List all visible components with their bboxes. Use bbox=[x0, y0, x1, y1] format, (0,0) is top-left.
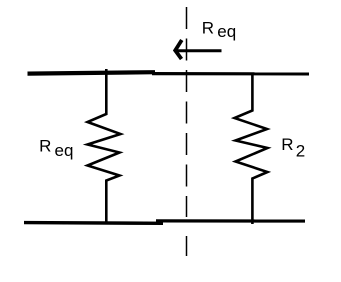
arrow shaft (R_eq direction arrow) bbox=[177, 49, 222, 52]
wire bottom right segment bbox=[156, 219, 305, 222]
svg-text:R: R bbox=[39, 137, 51, 156]
top wire right segment bbox=[152, 72, 309, 76]
svg-text:R: R bbox=[281, 135, 293, 154]
svg-text:R: R bbox=[202, 19, 214, 38]
top wire left segment bbox=[28, 72, 156, 73]
svg-text:2: 2 bbox=[296, 141, 305, 160]
svg-text:eq: eq bbox=[55, 141, 74, 160]
svg-text:eq: eq bbox=[217, 22, 236, 41]
resistor R2 (right) bbox=[235, 73, 268, 224]
dashed line bottom dash bbox=[186, 236, 188, 256]
wire bottom left segment bbox=[24, 221, 163, 225]
arrowhead bbox=[175, 40, 182, 59]
resistor R_eq (left) bbox=[88, 69, 121, 223]
dashed symmetry line bbox=[186, 7, 188, 217]
